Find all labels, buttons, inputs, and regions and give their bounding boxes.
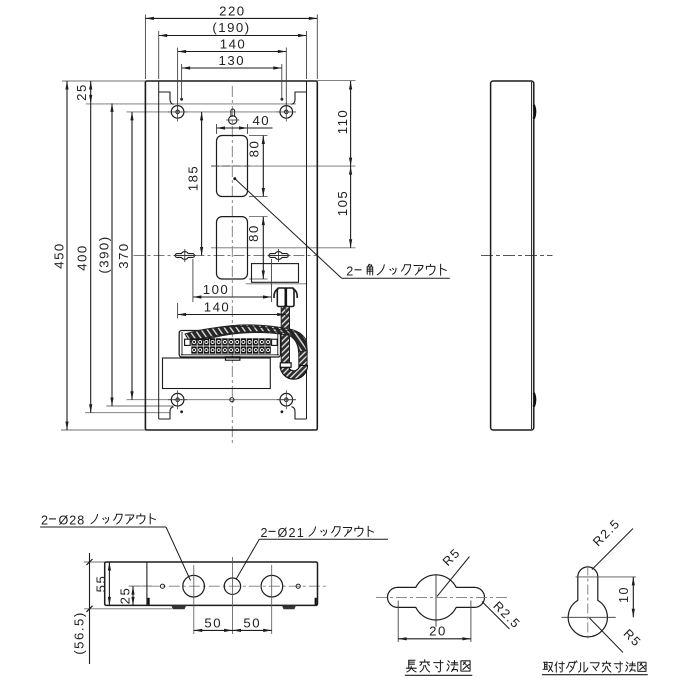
svg-text:400: 400 xyxy=(75,244,90,271)
svg-text:80: 80 xyxy=(246,224,261,242)
svg-text:100: 100 xyxy=(203,282,230,297)
svg-text:130: 130 xyxy=(219,53,246,68)
svg-text:2: 2 xyxy=(261,526,268,540)
svg-text:80: 80 xyxy=(246,140,261,158)
svg-text:110: 110 xyxy=(335,109,350,135)
svg-text:450: 450 xyxy=(51,242,66,269)
svg-text:10: 10 xyxy=(617,586,631,603)
svg-text:105: 105 xyxy=(335,190,350,217)
svg-text:50: 50 xyxy=(243,616,261,631)
svg-text:(56.5): (56.5) xyxy=(71,611,86,654)
svg-text:Ø28: Ø28 xyxy=(59,513,86,527)
svg-text:(190): (190) xyxy=(212,20,250,35)
svg-text:185: 185 xyxy=(185,165,200,192)
svg-text:2: 2 xyxy=(346,264,353,278)
svg-text:55: 55 xyxy=(93,575,108,593)
svg-text:140: 140 xyxy=(220,36,247,51)
svg-text:140: 140 xyxy=(204,299,231,314)
svg-text:40: 40 xyxy=(252,113,270,128)
svg-text:220: 220 xyxy=(219,3,246,18)
svg-text:25: 25 xyxy=(117,587,132,605)
svg-text:50: 50 xyxy=(204,616,222,631)
svg-text:20: 20 xyxy=(429,624,447,639)
svg-text:2: 2 xyxy=(41,513,48,527)
svg-text:25: 25 xyxy=(74,83,89,101)
svg-text:Ø21: Ø21 xyxy=(278,526,305,540)
svg-text:370: 370 xyxy=(116,242,131,269)
svg-text:(390): (390) xyxy=(96,235,111,273)
